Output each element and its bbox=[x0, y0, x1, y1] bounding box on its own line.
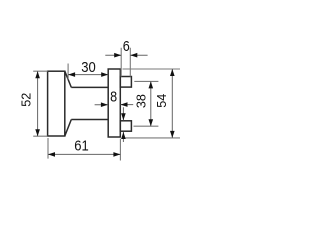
svg-text:52: 52 bbox=[18, 93, 33, 107]
svg-text:8: 8 bbox=[110, 89, 117, 105]
svg-text:54: 54 bbox=[154, 94, 169, 108]
svg-text:61: 61 bbox=[74, 138, 89, 154]
svg-text:6: 6 bbox=[123, 39, 130, 55]
svg-text:30: 30 bbox=[81, 60, 96, 76]
svg-text:38: 38 bbox=[134, 94, 149, 108]
